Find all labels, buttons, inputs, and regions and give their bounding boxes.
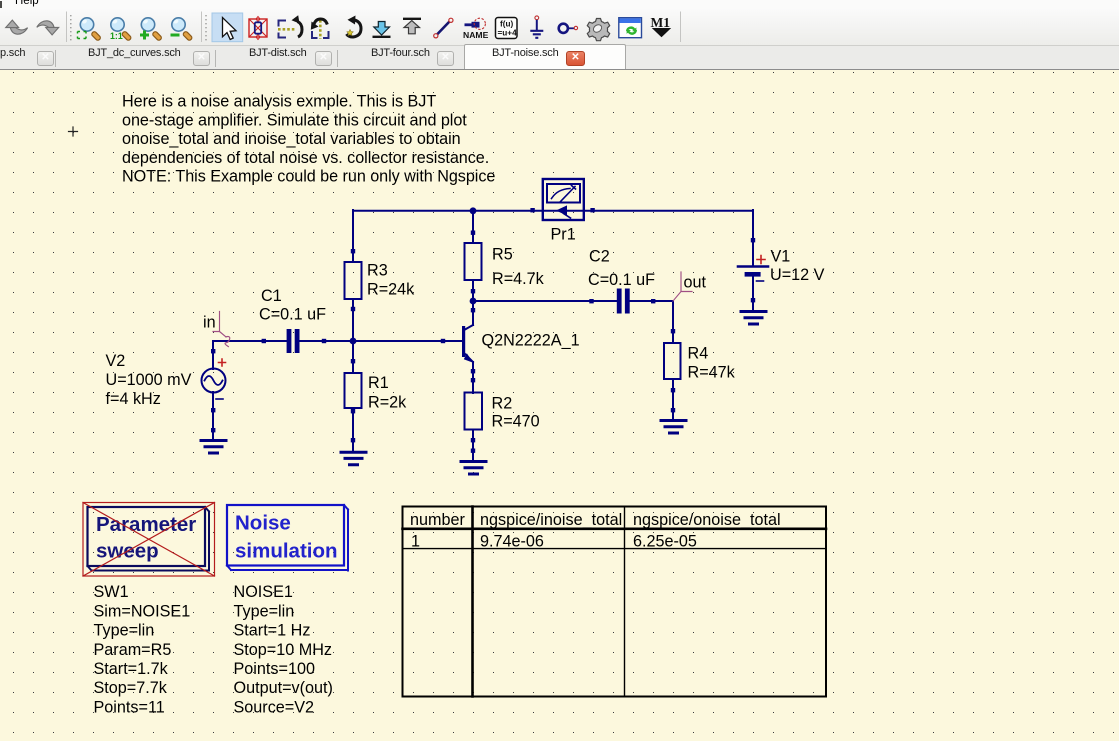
wire R1 bottom to ground — [352, 408, 354, 452]
wire R2 bottom to ground — [472, 430, 474, 461]
svg-text:Parameter: Parameter — [96, 513, 196, 536]
svg-text:R=2k: R=2k — [368, 394, 407, 412]
zoom in — [141, 18, 162, 41]
transistor Q1 — [462, 325, 580, 363]
ac source V2 — [106, 352, 226, 408]
svg-text:NOTE: This Example could be ru: NOTE: This Example could be run only wit… — [122, 168, 495, 186]
wire V2 top — [212, 341, 214, 369]
svg-text:V2: V2 — [106, 352, 126, 370]
svg-text:Pr1: Pr1 — [551, 225, 576, 243]
wire collector — [472, 301, 474, 325]
resistor R2 — [465, 393, 540, 431]
node junction collector — [470, 298, 477, 305]
svg-text:U=12 V: U=12 V — [770, 266, 825, 284]
svg-text:C=0.1 uF: C=0.1 uF — [259, 306, 326, 324]
toolbar — [0, 9, 1119, 46]
svg-text:one-stage amplifier. Simulate: one-stage amplifier. Simulate this circu… — [122, 111, 467, 129]
settings gear icon — [587, 19, 609, 41]
resistor R5 — [465, 243, 545, 288]
svg-text:onoise_total and inoise_total: onoise_total and inoise_total variables … — [122, 130, 461, 148]
wire R4 bottom to ground — [672, 379, 674, 420]
svg-text:ngspice/onoise_total: ngspice/onoise_total — [633, 511, 781, 529]
zoom out — [172, 18, 193, 41]
zoom 1:1 — [111, 18, 132, 41]
svg-text:Param=R5: Param=R5 — [94, 641, 172, 659]
svg-text:number: number — [410, 511, 465, 529]
svg-text:R=4.7k: R=4.7k — [492, 270, 545, 288]
capacitor C2 — [588, 248, 655, 314]
mirror about Y icon — [311, 19, 329, 39]
wire middle rail collector to out — [473, 300, 673, 302]
svg-text:ngspice/inoise_total: ngspice/inoise_total — [480, 511, 622, 529]
svg-text:M1: M1 — [651, 15, 671, 30]
wire V1 bottom to ground — [752, 277, 754, 311]
SW1 properties text — [94, 583, 191, 716]
ground gnd-R4 — [661, 421, 686, 434]
mirror about X icon (blue arrow down) — [374, 22, 390, 36]
svg-text:NOISE1: NOISE1 — [234, 583, 293, 601]
node junction top — [470, 207, 477, 214]
svg-text:f=4 kHz: f=4 kHz — [106, 390, 161, 408]
svg-text:simulation: simulation — [235, 540, 338, 563]
simulation box noise simulation NOISE1 — [227, 505, 348, 571]
wire V1 top — [752, 210, 754, 265]
NOISE1 properties text — [234, 583, 333, 716]
svg-text:f(u): f(u) — [500, 20, 513, 29]
separator — [66, 12, 68, 43]
svg-text:Noise: Noise — [235, 512, 291, 535]
wire base rail V2 to Q1 — [213, 340, 462, 342]
description text note — [122, 93, 495, 186]
simulation box parameter sweep SW1 — [83, 503, 215, 577]
ground gnd-R2 — [461, 462, 486, 475]
capacitor C1 — [259, 287, 326, 353]
ground gnd-V1 — [741, 312, 766, 325]
svg-text:Stop=7.7k: Stop=7.7k — [94, 679, 168, 697]
wire R3 bottom to base node — [352, 299, 354, 341]
svg-text:NAME: NAME — [463, 30, 489, 40]
wire V2 bottom to ground — [212, 392, 214, 440]
svg-text:Points=11: Points=11 — [94, 698, 165, 716]
svg-text:U=1000 mV: U=1000 mV — [106, 371, 192, 389]
svg-text:dependencies of total noise vs: dependencies of total noise vs. collecto… — [122, 149, 489, 167]
svg-text:Sim=NOISE1: Sim=NOISE1 — [94, 602, 191, 620]
svg-text:R1: R1 — [368, 374, 389, 392]
svg-text:V1: V1 — [771, 247, 791, 265]
wire R5 bottom — [472, 280, 474, 301]
ammeter probe Pr1 — [543, 179, 584, 243]
node label in — [203, 312, 230, 347]
svg-text:Start=1.7k: Start=1.7k — [94, 660, 169, 678]
svg-text:Q2N2222A_1: Q2N2222A_1 — [482, 332, 580, 350]
separator — [680, 12, 682, 43]
select button (active) — [212, 13, 243, 42]
svg-text:R3: R3 — [367, 262, 388, 280]
wire top rail R3 to V1 — [353, 210, 753, 212]
mirror up icon (grey arrow up) — [403, 18, 421, 20]
simulate icon — [619, 18, 642, 38]
svg-text:SW1: SW1 — [94, 583, 129, 601]
svg-text:Type=lin: Type=lin — [234, 602, 295, 620]
wire R1 top — [352, 341, 354, 373]
resistor R4 — [664, 343, 736, 382]
separator — [201, 12, 203, 43]
svg-text:Stop=10 MHz: Stop=10 MHz — [234, 641, 333, 659]
ground icon — [530, 16, 543, 38]
svg-text:1:1: 1:1 — [110, 31, 123, 41]
svg-text:R=24k: R=24k — [367, 281, 415, 299]
svg-text:Output=v(out): Output=v(out) — [234, 679, 333, 697]
svg-text:C1: C1 — [261, 287, 282, 305]
wire out corner down — [672, 301, 674, 343]
svg-text:R5: R5 — [492, 246, 513, 264]
ground gnd-V2 — [201, 441, 226, 454]
svg-text:Points=100: Points=100 — [234, 660, 315, 678]
resistor R1 — [345, 373, 408, 412]
svg-text:9.74e-06: 9.74e-06 — [480, 533, 544, 551]
menu bar — [0, 0, 1119, 9]
zoom fit — [80, 18, 101, 41]
port icon — [559, 24, 578, 33]
svg-text:Start=1 Hz: Start=1 Hz — [234, 622, 311, 640]
wire R3 top stub — [352, 210, 354, 262]
wire emitter — [472, 362, 474, 393]
svg-text:C=0.1 uF: C=0.1 uF — [588, 271, 655, 289]
undo — [6, 20, 19, 28]
insert wire icon — [437, 22, 450, 35]
svg-text:=u+4: =u+4 — [498, 29, 518, 38]
redo — [37, 21, 59, 35]
origin marker — [69, 127, 78, 136]
svg-text:Type=lin: Type=lin — [94, 622, 155, 640]
ground gnd-R1 — [341, 452, 366, 465]
move component text icon — [278, 15, 302, 37]
deactivate icon — [249, 17, 267, 40]
svg-text:6.25e-05: 6.25e-05 — [633, 533, 697, 551]
svg-text:R4: R4 — [688, 345, 709, 363]
svg-text:R2: R2 — [492, 395, 513, 413]
svg-text:Source=V2: Source=V2 — [234, 698, 315, 716]
svg-text:Here is a noise analysis exmpl: Here is a noise analysis exmple. This is… — [122, 93, 436, 111]
svg-text:in: in — [203, 314, 216, 332]
insert wire label NAME icon — [463, 18, 489, 40]
svg-text:out: out — [684, 273, 707, 291]
svg-text:1: 1 — [411, 533, 420, 551]
battery V1 — [738, 247, 825, 284]
node label out — [673, 272, 707, 301]
svg-text:R=470: R=470 — [492, 413, 540, 431]
tab bar — [0, 46, 1119, 71]
resistor R3 — [345, 262, 416, 300]
svg-text:R=47k: R=47k — [688, 364, 736, 382]
rotate ccw icon — [347, 16, 362, 38]
node junction base — [350, 338, 357, 345]
equation icon — [496, 18, 518, 39]
result table — [403, 507, 827, 697]
M1 marker icon — [651, 15, 672, 37]
wire R5 top stub — [472, 210, 474, 243]
terminal dots — [211, 208, 755, 453]
svg-text:C2: C2 — [589, 248, 610, 266]
